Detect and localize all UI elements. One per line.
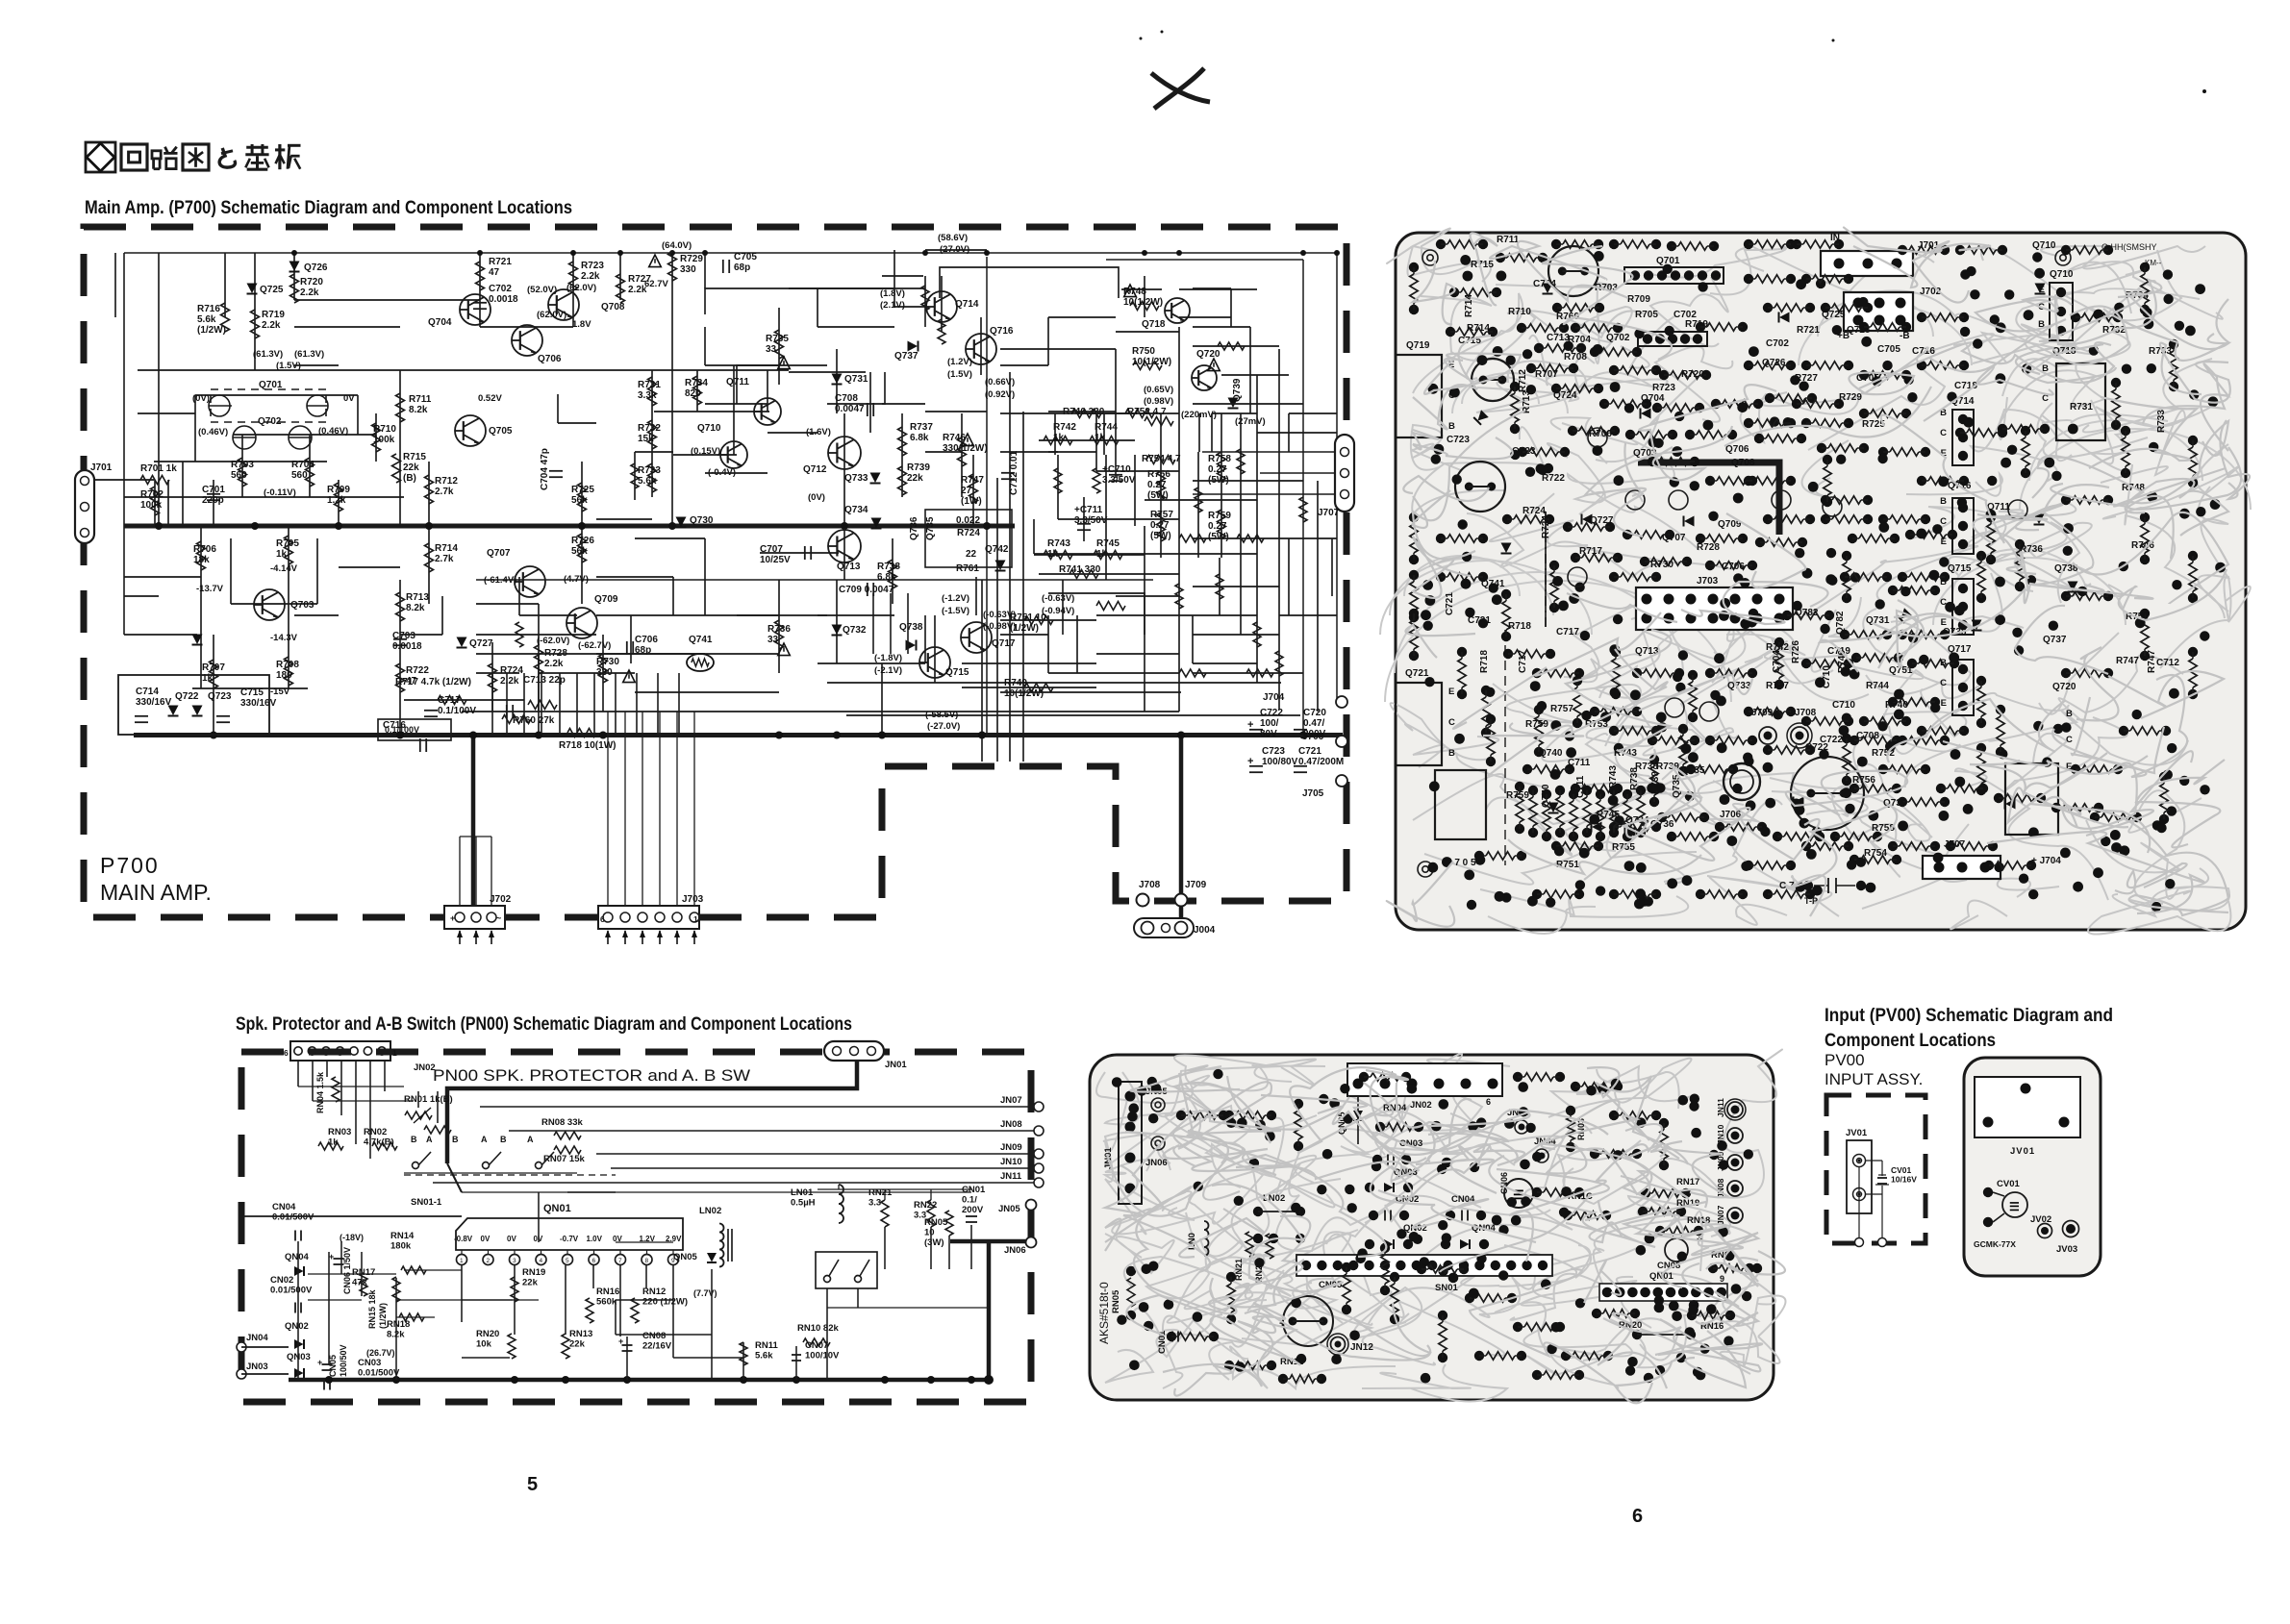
svg-text:JN10: JN10 — [1000, 1157, 1022, 1167]
svg-text:Q732: Q732 — [843, 625, 867, 636]
svg-text:0.0018: 0.0018 — [489, 294, 518, 305]
svg-text:5.6k: 5.6k — [638, 476, 657, 487]
svg-text:Q719: Q719 — [1406, 340, 1430, 351]
svg-text:1.8V: 1.8V — [572, 319, 591, 330]
svg-text:Q706: Q706 — [538, 354, 562, 364]
svg-text:C723: C723 — [1447, 435, 1470, 445]
svg-text:Q703: Q703 — [290, 600, 315, 611]
svg-text:(61.3V): (61.3V) — [294, 349, 324, 360]
svg-text:J703: J703 — [1697, 576, 1719, 587]
svg-text:R728: R728 — [1697, 542, 1720, 553]
svg-text:C705: C705 — [1856, 373, 1879, 384]
svg-text:Q722: Q722 — [175, 691, 199, 702]
svg-text:A: A — [426, 1135, 433, 1144]
svg-text:C712 0.01: C712 0.01 — [1009, 450, 1019, 495]
svg-text:R730: R730 — [596, 657, 619, 667]
svg-text:J708: J708 — [1139, 880, 1161, 890]
svg-text:R737: R737 — [1766, 681, 1789, 691]
svg-text:R710: R710 — [1508, 307, 1531, 317]
svg-text:6: 6 — [600, 914, 605, 924]
svg-text:RN10 82k: RN10 82k — [797, 1323, 839, 1334]
svg-text:C717: C717 — [1518, 650, 1528, 673]
svg-text:R731: R731 — [2070, 402, 2093, 412]
svg-text:R710: R710 — [373, 424, 396, 435]
svg-text:C: C — [1940, 516, 1947, 527]
svg-text:C711: C711 — [1568, 758, 1591, 768]
svg-text:E: E — [2039, 285, 2045, 295]
svg-text:R730: R730 — [1650, 560, 1673, 570]
svg-text:RN14: RN14 — [390, 1231, 415, 1241]
svg-text:Q726: Q726 — [304, 262, 328, 273]
svg-text:80V: 80V — [1260, 729, 1277, 739]
svg-text:R712: R712 — [435, 476, 458, 487]
svg-text:0V: 0V — [481, 1235, 491, 1243]
svg-text:JN11: JN11 — [1000, 1171, 1022, 1182]
svg-text:Q710: Q710 — [2050, 269, 2074, 280]
svg-text:J709: J709 — [1185, 880, 1207, 890]
svg-text:R703: R703 — [231, 460, 254, 470]
svg-text:15k: 15k — [638, 434, 654, 444]
svg-text:R707: R707 — [202, 662, 225, 673]
svg-text:R733: R733 — [638, 465, 661, 476]
svg-text:R747: R747 — [2147, 650, 2157, 673]
svg-text:Q712: Q712 — [803, 464, 827, 475]
svg-text:(58.6V): (58.6V) — [938, 233, 968, 243]
svg-text:Q706: Q706 — [1725, 444, 1749, 455]
svg-text:R740: R740 — [1885, 700, 1908, 711]
svg-text:6: 6 — [592, 1258, 596, 1264]
svg-text:0.1/100V: 0.1/100V — [438, 706, 476, 716]
svg-text:Q742: Q742 — [985, 544, 1009, 555]
svg-text:-B: -B — [1900, 331, 1910, 341]
svg-text:Q727: Q727 — [469, 638, 493, 649]
svg-text:R739: R739 — [907, 462, 930, 473]
svg-text:R759: R759 — [1208, 511, 1231, 521]
svg-text:C702: C702 — [1766, 338, 1789, 349]
svg-text:56k: 56k — [571, 495, 588, 506]
svg-text:0.022: 0.022 — [956, 515, 980, 526]
svg-text:B: B — [411, 1135, 417, 1144]
svg-text:LN02: LN02 — [699, 1206, 721, 1216]
svg-text:C: C — [2066, 735, 2073, 745]
svg-text:(-0.98V): (-0.98V) — [983, 621, 1016, 632]
svg-text:10/25V: 10/25V — [760, 555, 791, 565]
svg-text:(4.7V): (4.7V) — [564, 574, 589, 585]
svg-text:-15V: -15V — [270, 687, 290, 697]
svg-text:R727: R727 — [1795, 373, 1818, 384]
svg-text:E: E — [1941, 617, 1947, 628]
svg-text:0.01/500V: 0.01/500V — [272, 1212, 315, 1223]
svg-text:Q720: Q720 — [2052, 682, 2076, 692]
svg-text:JN01: JN01 — [885, 1060, 907, 1070]
svg-text:(61.3V): (61.3V) — [253, 349, 283, 360]
svg-text:R704: R704 — [291, 460, 315, 470]
svg-text:820: 820 — [685, 388, 701, 399]
svg-text:Q716: Q716 — [990, 326, 1014, 337]
svg-text:R746: R746 — [943, 433, 966, 443]
svg-text:5: 5 — [527, 1474, 538, 1495]
svg-text:C712: C712 — [2156, 658, 2179, 668]
svg-text:Q731: Q731 — [1866, 615, 1890, 626]
svg-text:C: C — [1940, 428, 1947, 438]
svg-text:Q710: Q710 — [697, 423, 721, 434]
svg-text:6: 6 — [284, 1048, 289, 1058]
svg-text:2.2k: 2.2k — [500, 676, 519, 687]
svg-text:R754: R754 — [1864, 848, 1887, 859]
svg-text:JN06: JN06 — [1004, 1245, 1026, 1256]
svg-text:R715: R715 — [1471, 260, 1494, 270]
svg-text:CN07: CN07 — [805, 1340, 828, 1351]
svg-text:B: B — [1448, 421, 1455, 432]
svg-text:R719: R719 — [262, 310, 285, 320]
svg-text:R706: R706 — [1589, 429, 1612, 439]
svg-text:Q724: Q724 — [1553, 390, 1577, 401]
svg-text:22k: 22k — [522, 1278, 539, 1288]
svg-text:(2.1V): (2.1V) — [880, 300, 905, 311]
svg-text:B: B — [2066, 709, 2073, 719]
svg-text:(-1.5V): (-1.5V) — [942, 606, 969, 616]
svg-text:0.01/500V: 0.01/500V — [270, 1286, 313, 1296]
svg-text:Q715: Q715 — [1948, 563, 1972, 574]
svg-text:CN03: CN03 — [358, 1358, 381, 1368]
svg-text:6.8k: 6.8k — [877, 572, 896, 583]
svg-text:R723: R723 — [1652, 383, 1675, 393]
svg-text:QN01: QN01 — [543, 1203, 571, 1214]
svg-text:R749: R749 — [1004, 678, 1027, 688]
svg-text:R725: R725 — [571, 485, 594, 495]
svg-text:R707: R707 — [1535, 369, 1558, 380]
svg-text:R706: R706 — [193, 544, 216, 555]
svg-text:JV02: JV02 — [2030, 1214, 2051, 1225]
svg-text:JN09: JN09 — [1000, 1142, 1022, 1153]
svg-text:Q717: Q717 — [992, 638, 1016, 649]
svg-text:RN15 18k: RN15 18k — [367, 1288, 377, 1329]
svg-text:-14.3V: -14.3V — [270, 633, 298, 643]
svg-text:JN12: JN12 — [1350, 1342, 1373, 1353]
svg-text:330/16V: 330/16V — [136, 697, 172, 708]
svg-text:R756: R756 — [1852, 775, 1875, 786]
svg-text:Q707: Q707 — [1662, 533, 1686, 543]
svg-text:(-62.0V): (-62.0V) — [537, 636, 569, 646]
svg-text:R715: R715 — [403, 452, 426, 462]
svg-text:R714: R714 — [1467, 323, 1490, 334]
svg-text:(-18V): (-18V) — [340, 1233, 364, 1242]
svg-text:100/50V: 100/50V — [339, 1344, 348, 1377]
svg-text:22k: 22k — [907, 473, 923, 484]
svg-text:Q714: Q714 — [955, 299, 979, 310]
svg-text:(-0.94V): (-0.94V) — [1042, 606, 1074, 616]
svg-text:C: C — [1940, 678, 1947, 688]
svg-text:JN11: JN11 — [1716, 1098, 1725, 1117]
svg-text:(-58.5V): (-58.5V) — [925, 710, 958, 720]
svg-text:C721: C721 — [1468, 615, 1491, 626]
svg-text:0.0018: 0.0018 — [392, 641, 422, 652]
svg-text:Q715: Q715 — [945, 667, 969, 678]
svg-text:1: 1 — [392, 1048, 397, 1058]
svg-text:4: 4 — [540, 1258, 543, 1264]
svg-text:Q701: Q701 — [259, 380, 283, 390]
svg-text:B: B — [1448, 748, 1455, 759]
svg-text:Q727: Q727 — [1590, 515, 1614, 526]
svg-text:47: 47 — [489, 267, 500, 278]
svg-text:3.3/50V: 3.3/50V — [1102, 475, 1136, 486]
svg-text:2.2k: 2.2k — [581, 271, 600, 282]
svg-text:(-0.63V): (-0.63V) — [1042, 593, 1074, 604]
svg-text:JN07: JN07 — [1716, 1205, 1725, 1225]
svg-text:C706: C706 — [1722, 562, 1745, 572]
svg-text:Q704: Q704 — [1641, 393, 1665, 404]
svg-text:200V: 200V — [962, 1205, 984, 1215]
svg-text:560: 560 — [231, 470, 247, 481]
svg-text:0.5µH: 0.5µH — [791, 1198, 816, 1209]
svg-text:1.2k: 1.2k — [327, 495, 346, 506]
svg-text:(3W): (3W) — [924, 1237, 944, 1248]
svg-text:R744: R744 — [1866, 681, 1889, 691]
svg-text:R718 10(1W): R718 10(1W) — [559, 740, 616, 751]
svg-text:22k: 22k — [569, 1339, 586, 1350]
svg-text:R759: R759 — [1506, 790, 1529, 801]
svg-text:Q736: Q736 — [909, 516, 919, 540]
svg-text:PV00: PV00 — [1824, 1051, 1865, 1069]
svg-text:RN20: RN20 — [476, 1329, 499, 1339]
svg-text:0.47/: 0.47/ — [1303, 718, 1324, 729]
svg-text:R714: R714 — [435, 543, 458, 554]
svg-text:5.6k: 5.6k — [197, 314, 216, 325]
svg-text:C722: C722 — [1820, 735, 1843, 745]
svg-text:C704: C704 — [1772, 650, 1782, 673]
svg-text:RN13: RN13 — [569, 1329, 592, 1339]
svg-text:C703: C703 — [392, 631, 415, 641]
svg-text:R750: R750 — [1132, 346, 1155, 357]
svg-text:R741 330: R741 330 — [1059, 564, 1101, 575]
svg-text:Q713: Q713 — [837, 562, 861, 572]
svg-text:330/16V: 330/16V — [240, 698, 277, 709]
svg-text:R745: R745 — [1096, 538, 1120, 549]
svg-text:2.2k: 2.2k — [300, 287, 319, 298]
svg-text:6: 6 — [1486, 1097, 1491, 1107]
svg-text:(0.46V): (0.46V) — [198, 427, 228, 437]
svg-text:R713: R713 — [1522, 390, 1532, 413]
svg-text:2.7k: 2.7k — [435, 554, 454, 564]
svg-text:+C711: +C711 — [1074, 505, 1103, 515]
svg-text:(B): (B) — [403, 473, 416, 484]
svg-text:2.2k: 2.2k — [544, 659, 564, 669]
svg-text:3.3: 3.3 — [868, 1198, 881, 1209]
svg-text:18k: 18k — [193, 555, 210, 565]
svg-text:C706: C706 — [635, 635, 658, 645]
svg-text:PN00 SPK. PROTECTOR and A. B S: PN00 SPK. PROTECTOR and A. B SW — [433, 1066, 750, 1085]
svg-text:C701: C701 — [202, 485, 225, 495]
svg-text:3.3/50V: 3.3/50V — [1074, 515, 1108, 526]
svg-text:(27mV): (27mV) — [1235, 416, 1266, 427]
svg-text:330: 330 — [680, 264, 696, 275]
svg-text:(0.66V): (0.66V) — [985, 377, 1015, 387]
svg-text:B: B — [1940, 496, 1947, 507]
svg-text:Q723: Q723 — [208, 691, 232, 702]
svg-text:AKS#518t-0: AKS#518t-0 — [1097, 1282, 1111, 1344]
svg-text:R705: R705 — [276, 538, 299, 549]
svg-text:R711: R711 — [1497, 235, 1520, 245]
svg-text:9: 9 — [1720, 1274, 1724, 1284]
svg-text:R732: R732 — [638, 423, 661, 434]
svg-text:R744: R744 — [1095, 422, 1118, 433]
svg-text:B: B — [1940, 658, 1947, 668]
svg-text:R724: R724 — [957, 528, 980, 538]
svg-text:C707: C707 — [760, 544, 783, 555]
svg-text:R722: R722 — [406, 665, 429, 676]
svg-text:R717 4.7k (1/2W): R717 4.7k (1/2W) — [395, 677, 471, 687]
svg-text:2.7k: 2.7k — [435, 487, 454, 497]
svg-text:JN05: JN05 — [998, 1204, 1020, 1214]
svg-text:10(1/2W): 10(1/2W) — [1004, 688, 1044, 699]
svg-text:IN: IN — [1830, 233, 1840, 243]
svg-text:10(1/2W): 10(1/2W) — [1123, 297, 1163, 308]
svg-text:C717: C717 — [438, 695, 461, 706]
svg-text:Q720: Q720 — [1196, 349, 1220, 360]
svg-text:B: B — [500, 1135, 507, 1144]
svg-text:RN05: RN05 — [1111, 1289, 1121, 1313]
svg-text:CN02: CN02 — [270, 1275, 293, 1286]
svg-text:10/16V: 10/16V — [1891, 1175, 1917, 1185]
svg-text:(1.5V): (1.5V) — [947, 369, 972, 380]
svg-text:Component Locations: Component Locations — [1824, 1030, 1996, 1051]
svg-text:C702: C702 — [489, 284, 512, 294]
svg-text:(-27.0V): (-27.0V) — [927, 721, 960, 732]
svg-text:R720: R720 — [300, 277, 323, 287]
svg-text:2.2k: 2.2k — [262, 320, 281, 331]
svg-text:Q707: Q707 — [487, 548, 511, 559]
svg-text:(-1.8V): (-1.8V) — [874, 653, 902, 663]
svg-text:R709: R709 — [1627, 294, 1650, 305]
svg-text:JV01: JV01 — [2010, 1146, 2035, 1157]
svg-text:-0.7V: -0.7V — [560, 1235, 579, 1243]
svg-text:Q733: Q733 — [844, 473, 868, 484]
svg-text:RN04: RN04 — [1383, 1103, 1407, 1113]
svg-text:(62.0V): (62.0V) — [537, 310, 566, 320]
svg-text:180k: 180k — [390, 1241, 412, 1252]
svg-text:R721: R721 — [489, 257, 512, 267]
svg-text:8.2k: 8.2k — [406, 603, 425, 613]
svg-text:10(1/2W): 10(1/2W) — [1132, 357, 1171, 367]
svg-text:J004: J004 — [1194, 925, 1216, 936]
svg-text:Q738: Q738 — [899, 622, 923, 633]
svg-text:Q737: Q737 — [2043, 635, 2067, 645]
svg-text:~: ~ — [496, 913, 501, 923]
svg-text:(-0.11V): (-0.11V) — [264, 487, 296, 498]
svg-text:Q739: Q739 — [1232, 378, 1243, 402]
svg-text:RN18: RN18 — [387, 1319, 410, 1330]
svg-text:RN19: RN19 — [522, 1267, 545, 1278]
svg-text:+: + — [618, 1337, 623, 1346]
svg-text:2: 2 — [487, 1258, 491, 1264]
svg-text:SN01: SN01 — [1435, 1283, 1458, 1293]
svg-text:E: E — [1448, 687, 1454, 697]
svg-text:☰: ☰ — [2009, 1200, 2020, 1213]
svg-text:RN08 33k: RN08 33k — [541, 1117, 583, 1128]
svg-text:P700: P700 — [100, 853, 160, 878]
svg-text:R733: R733 — [2156, 410, 2167, 433]
svg-text:+: + — [1247, 719, 1253, 731]
svg-text:0.01/500V: 0.01/500V — [358, 1368, 400, 1379]
svg-text:100/: 100/ — [1260, 718, 1279, 729]
svg-text:JN02: JN02 — [414, 1062, 436, 1073]
svg-text:3.3k: 3.3k — [638, 390, 657, 401]
svg-text:R702: R702 — [140, 489, 164, 500]
svg-text:Q709: Q709 — [594, 594, 618, 605]
svg-text:C720: C720 — [1303, 708, 1326, 718]
svg-text:Q705: Q705 — [489, 426, 513, 437]
svg-text:0V: 0V — [343, 393, 355, 404]
svg-text:MAIN AMP.: MAIN AMP. — [100, 880, 212, 905]
svg-text:CN08: CN08 — [642, 1331, 666, 1341]
svg-text:RN04 1.5k: RN04 1.5k — [315, 1071, 325, 1113]
svg-text:C710: C710 — [1832, 700, 1855, 711]
svg-text:220p: 220p — [202, 495, 224, 506]
svg-text:27: 27 — [961, 486, 972, 496]
svg-text:GCMK-77X: GCMK-77X — [1974, 1239, 2016, 1249]
svg-text:(0.65V): (0.65V) — [1144, 385, 1173, 395]
svg-text:C721: C721 — [1445, 592, 1455, 615]
svg-text:R714: R714 — [1464, 294, 1474, 317]
svg-text:(0V): (0V) — [808, 492, 825, 503]
svg-text:R757: R757 — [1550, 704, 1573, 714]
svg-text:(62.0V): (62.0V) — [566, 283, 596, 293]
svg-text:68p: 68p — [734, 262, 750, 273]
svg-text:R726: R726 — [571, 536, 594, 546]
svg-text:6.8k: 6.8k — [910, 433, 929, 443]
svg-text:Q740: Q740 — [1539, 748, 1563, 759]
svg-text:CN04: CN04 — [272, 1202, 296, 1212]
svg-text:0.47/200M: 0.47/200M — [1298, 757, 1344, 767]
svg-text:R712: R712 — [1518, 369, 1528, 392]
svg-text:180: 180 — [276, 670, 292, 681]
svg-text:Main Amp. (P700) Schematic Dia: Main Amp. (P700) Schematic Diagram and C… — [85, 197, 572, 218]
svg-text:C721: C721 — [1298, 746, 1321, 757]
svg-text:R701 1k: R701 1k — [140, 463, 177, 474]
svg-text:Q708: Q708 — [1731, 458, 1755, 468]
svg-text:33: 33 — [766, 344, 777, 355]
svg-text:560k: 560k — [596, 1297, 617, 1308]
svg-text:R742: R742 — [1053, 422, 1076, 433]
svg-text:(1W): (1W) — [961, 496, 982, 507]
svg-text:A: A — [481, 1135, 488, 1144]
svg-text:(-61.4V): (-61.4V) — [484, 575, 516, 586]
svg-text:(5W): (5W) — [1208, 532, 1229, 542]
svg-text:+: + — [329, 1252, 334, 1262]
svg-text:Q701: Q701 — [1656, 256, 1680, 266]
svg-text:62.7V: 62.7V — [644, 279, 668, 289]
svg-text:(-1.2V): (-1.2V) — [942, 593, 969, 604]
svg-text:(0.98V): (0.98V) — [1144, 396, 1173, 407]
svg-text:(0.92V): (0.92V) — [985, 389, 1015, 400]
svg-text:C704 47p: C704 47p — [540, 448, 550, 490]
svg-text:(7.7V): (7.7V) — [693, 1288, 717, 1298]
svg-text:R726: R726 — [1791, 640, 1801, 663]
svg-text:R717: R717 — [1579, 546, 1602, 557]
svg-text:0.27: 0.27 — [1208, 464, 1227, 475]
svg-text:(0.46V): (0.46V) — [318, 426, 348, 437]
svg-text:JN07: JN07 — [1000, 1095, 1022, 1106]
svg-text:100k: 100k — [373, 435, 395, 445]
svg-text:R718: R718 — [1479, 650, 1490, 673]
svg-text:200V: 200V — [1303, 729, 1326, 739]
svg-text:+: + — [450, 913, 455, 923]
svg-text:R724: R724 — [1541, 515, 1551, 538]
svg-text:R729: R729 — [680, 254, 703, 264]
svg-text:R722: R722 — [1542, 473, 1565, 484]
svg-text:-13.7V: -13.7V — [196, 584, 224, 594]
svg-text:C713: C713 — [1547, 333, 1570, 343]
